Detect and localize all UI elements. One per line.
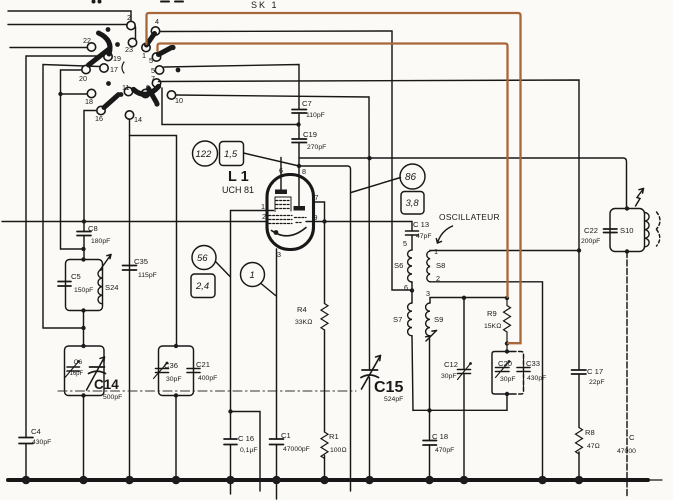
coil S6 <box>394 250 412 282</box>
wire h135 to C36 line <box>130 136 177 347</box>
contact 23 <box>125 38 137 54</box>
svg-text:C35: C35 <box>134 257 148 266</box>
trimmer C20 <box>496 359 516 383</box>
wire contact19 + vertical v25 to C4 <box>26 56 104 478</box>
svg-text:7: 7 <box>315 193 319 202</box>
svg-text:C22: C22 <box>584 226 598 235</box>
svg-text:18: 18 <box>85 97 93 106</box>
svg-text:7: 7 <box>151 74 155 83</box>
svg-text:1: 1 <box>250 270 255 281</box>
svg-text:3,8: 3,8 <box>406 198 420 209</box>
wire wiper to h124 <box>162 88 299 125</box>
trimmer C36 <box>154 361 182 383</box>
wire h166 to v351 <box>299 166 351 491</box>
tube pin9 wire <box>306 213 412 231</box>
wire contact18 <box>61 93 88 95</box>
node C15 top on h158 <box>367 156 371 160</box>
svg-text:2,4: 2,4 <box>195 281 209 292</box>
svg-text:S8: S8 <box>436 261 445 270</box>
svg-text:33KΩ: 33KΩ <box>295 319 312 326</box>
wire box1,5 to pin8 node <box>244 153 300 166</box>
svg-text:UCH 81: UCH 81 <box>222 185 254 195</box>
svg-text:C8: C8 <box>88 224 98 233</box>
oscillateur arrow <box>436 226 452 243</box>
svg-text:C: C <box>629 433 635 442</box>
svg-text:16pF: 16pF <box>70 371 84 377</box>
svg-text:R4: R4 <box>297 305 307 314</box>
contact 19 <box>104 52 121 63</box>
svg-text:200pF: 200pF <box>581 238 600 245</box>
wire contact22 left h47 <box>10 47 87 49</box>
trimmer C12 <box>441 360 472 380</box>
svg-text:122: 122 <box>196 149 213 160</box>
S24 adjust arrow <box>100 255 111 271</box>
svg-text:47000: 47000 <box>617 448 636 455</box>
wire C6 box to bus <box>83 396 85 479</box>
box C36/C21 <box>159 346 194 396</box>
text C 47000 <box>617 433 636 455</box>
svg-text:30pF: 30pF <box>441 373 457 380</box>
wire S8 top h250 <box>430 250 579 253</box>
small arc mark center of switch <box>122 62 124 73</box>
capacitor C21 <box>187 360 217 382</box>
coil S7 <box>393 303 412 336</box>
capacitor C8 <box>77 224 110 245</box>
svg-text:23: 23 <box>125 45 133 54</box>
node h328 <box>81 326 85 330</box>
contact 7 <box>151 74 161 87</box>
contact 18 <box>85 89 96 106</box>
svg-text:8: 8 <box>302 167 306 176</box>
svg-text:400pF: 400pF <box>198 375 217 382</box>
svg-text:15KΩ: 15KΩ <box>484 323 501 330</box>
wire contact4 h31 to v392 <box>160 31 412 290</box>
svg-text:3: 3 <box>426 289 430 298</box>
gang dashed link <box>58 390 356 392</box>
svg-text:5: 5 <box>403 239 407 248</box>
contact14 vertical through C35 to bus <box>129 120 131 479</box>
node R9 bottom / brown junction <box>505 341 509 345</box>
svg-text:0,1µF: 0,1µF <box>240 447 258 454</box>
node pin7/pin9 <box>322 219 326 223</box>
tube pin2 <box>262 212 266 221</box>
svg-text:R8: R8 <box>585 428 595 437</box>
contact 5 upper <box>149 53 161 65</box>
node C20 box top <box>505 349 509 353</box>
svg-text:S24: S24 <box>105 283 119 292</box>
svg-text:C20: C20 <box>498 359 512 368</box>
node C18 top <box>427 408 431 412</box>
node 6 <box>410 288 414 292</box>
svg-text:4: 4 <box>155 17 159 26</box>
indicator circle 122 <box>193 141 218 166</box>
svg-text:180pF: 180pF <box>91 238 110 245</box>
node C16 jog <box>228 409 232 413</box>
node h124/C7 line <box>296 122 300 126</box>
tube pin6 lead and anode bar <box>275 158 287 195</box>
svg-text:500pF: 500pF <box>103 394 122 401</box>
oscillateur label <box>439 212 500 222</box>
svg-text:C36: C36 <box>164 361 178 370</box>
wiper bar 16 <box>104 96 118 108</box>
capacitor C5 <box>58 272 93 294</box>
tube pin7 wire <box>314 193 325 304</box>
svg-text:C4: C4 <box>31 427 41 436</box>
svg-text:C15: C15 <box>374 379 403 396</box>
capacitor C22 <box>581 226 617 245</box>
node C36 bottom <box>174 393 178 397</box>
indicator circle 1 <box>241 263 265 287</box>
S10 adjust arrow <box>636 189 644 207</box>
resistor R1 <box>321 432 347 458</box>
wire top-left h11 <box>8 11 131 21</box>
capacitor C18 <box>423 410 454 478</box>
wire R4 to R1 <box>324 330 326 432</box>
svg-text:86: 86 <box>405 172 417 183</box>
svg-text:16: 16 <box>95 114 103 123</box>
capacitor C13 <box>403 220 432 250</box>
bracket 2-23 <box>135 27 137 39</box>
wiper bar 4-1 <box>147 34 155 46</box>
switch SK1 label <box>251 0 279 10</box>
svg-text:3: 3 <box>277 250 281 259</box>
indicator box 1,5 <box>220 142 244 166</box>
partial top marks <box>161 1 183 3</box>
svg-text:1,5: 1,5 <box>224 149 238 160</box>
wiper arc 22-19 <box>99 33 111 54</box>
capacitor C19 <box>292 130 326 206</box>
bus junction dots <box>22 476 584 485</box>
svg-text:L 1: L 1 <box>228 169 249 185</box>
node C20 box bottom <box>505 392 509 396</box>
vertical C15 line <box>368 97 371 478</box>
svg-text:OSCILLATEUR: OSCILLATEUR <box>439 212 500 222</box>
coil S8 <box>427 247 446 283</box>
coil S24 <box>98 270 119 304</box>
svg-text:30pF: 30pF <box>166 376 182 383</box>
tube pin3 wire <box>277 249 282 439</box>
wire contact7 h81 to v579 <box>159 80 580 370</box>
svg-text:C7: C7 <box>302 99 312 108</box>
svg-text:C19: C19 <box>303 130 317 139</box>
svg-text:S6: S6 <box>394 261 403 270</box>
svg-text:6: 6 <box>404 283 408 292</box>
box C6/C14 <box>65 346 105 396</box>
svg-text:6: 6 <box>279 166 283 175</box>
svg-text:10: 10 <box>175 96 183 105</box>
svg-text:17: 17 <box>110 65 118 74</box>
switch index dots <box>92 0 181 107</box>
node C8 line x h221 <box>82 219 86 223</box>
svg-text:1: 1 <box>142 51 146 60</box>
node C36 top <box>174 344 178 348</box>
wire S9 bottom to h410 <box>429 336 431 411</box>
node C6 box bottom <box>81 393 85 397</box>
svg-text:S9: S9 <box>434 315 443 324</box>
svg-text:56: 56 <box>197 253 208 264</box>
wire contact17 + vertical v43 <box>43 65 100 329</box>
svg-text:C 13: C 13 <box>413 220 429 229</box>
node v579 / S8 wire <box>577 248 581 252</box>
contact 2 <box>127 13 135 30</box>
box C20/C33 <box>492 352 524 395</box>
wire S10 bottom below bus <box>626 252 628 498</box>
contact 11 <box>122 83 133 96</box>
svg-text:150pF: 150pF <box>74 287 93 294</box>
resistor R8 <box>576 428 600 479</box>
wire top-left h24 <box>8 24 127 26</box>
svg-text:S7: S7 <box>393 315 402 324</box>
wire C20 box bottom to h410 <box>413 394 507 410</box>
svg-text:14: 14 <box>134 115 142 124</box>
svg-text:100Ω: 100Ω <box>330 447 347 454</box>
svg-text:19: 19 <box>113 54 121 63</box>
contact 1 <box>142 43 150 60</box>
capacitor C4 <box>19 427 51 446</box>
leader 56 to v230 <box>216 262 231 277</box>
indicator box 2,4 <box>191 274 215 298</box>
coil S10 <box>620 213 649 247</box>
contact 14 <box>125 111 142 124</box>
indicator circle 86 <box>400 164 425 189</box>
svg-text:470pF: 470pF <box>435 447 454 454</box>
svg-text:R9: R9 <box>487 309 497 318</box>
node h249 <box>81 247 85 251</box>
brown wire B contact5 to R9 top <box>158 44 508 298</box>
contact 17 <box>100 64 118 74</box>
wire contact5 h65 to C7 line <box>164 65 299 110</box>
svg-text:524pF: 524pF <box>384 396 403 403</box>
wiper arc 11-7 <box>134 87 159 95</box>
svg-text:47pF: 47pF <box>416 233 432 240</box>
wire contact16 + vertical v84 <box>84 111 97 260</box>
svg-text:C14: C14 <box>94 377 119 392</box>
wire pin2 long horizontal h221 <box>2 221 267 223</box>
capacitor C1 <box>270 431 310 499</box>
indicator circle 56 <box>192 246 216 270</box>
coil S9 <box>426 289 444 336</box>
indicator box 3,8 <box>401 192 424 215</box>
wire jog to v260 <box>231 412 261 492</box>
svg-text:C 18: C 18 <box>432 432 448 441</box>
node v60/18 <box>58 92 62 96</box>
svg-text:5: 5 <box>149 56 153 65</box>
svg-text:30pF: 30pF <box>500 376 516 383</box>
node pin8/C19 <box>297 164 301 168</box>
wire C36 box to bus <box>175 396 177 479</box>
wire C5 to C6 box <box>83 311 85 347</box>
svg-text:C 17: C 17 <box>587 367 603 376</box>
wire h158 C19 node to S10 <box>299 158 627 209</box>
node S9/C12 <box>462 296 466 300</box>
capacitor C16 <box>224 434 258 494</box>
node C5 bottom <box>81 308 85 312</box>
svg-text:C21: C21 <box>196 360 210 369</box>
tube UCH81 label <box>222 185 254 195</box>
wire S8 bottom h281 to v542 <box>430 282 543 478</box>
svg-text:110pF: 110pF <box>306 112 325 119</box>
coupling winding dashed <box>657 212 661 246</box>
resonant box C5/S24 <box>66 260 103 311</box>
svg-text:R1: R1 <box>329 432 339 441</box>
svg-text:C6: C6 <box>74 359 83 366</box>
capacitor C17 <box>572 367 605 428</box>
resistor R4 <box>295 304 328 330</box>
svg-text:S10: S10 <box>620 226 634 235</box>
svg-text:22: 22 <box>83 36 91 45</box>
brown wire A contact1 to R9 bottom <box>147 13 521 343</box>
node S10 top <box>625 206 629 210</box>
svg-text:430pF: 430pF <box>32 439 51 446</box>
svg-text:C5: C5 <box>71 272 81 281</box>
tube L1 label <box>228 169 249 185</box>
node C5 top <box>81 257 85 261</box>
box C22/S10 <box>610 209 645 252</box>
wiper bar cross <box>149 89 157 103</box>
wire R1 to bus <box>324 456 326 479</box>
tube UCH81 envelope <box>267 175 314 250</box>
vertical C12 line <box>463 298 465 478</box>
capacitor C33 <box>517 356 546 390</box>
svg-text:47Ω: 47Ω <box>587 443 600 450</box>
pin1 vertical v230 <box>231 211 268 439</box>
contact 9 <box>141 83 150 98</box>
wiper bar 19-20 <box>89 50 109 66</box>
tube grid structure <box>269 197 306 224</box>
contact 4 <box>151 17 159 35</box>
contact 10 <box>167 91 183 105</box>
svg-text:2: 2 <box>262 212 266 221</box>
svg-text:11: 11 <box>122 83 129 92</box>
wire contact10 h95 to C15 line <box>176 95 369 97</box>
svg-text:22pF: 22pF <box>589 379 605 386</box>
contact 22 <box>83 36 96 51</box>
svg-text:1: 1 <box>261 202 265 211</box>
svg-text:SK 1: SK 1 <box>251 0 279 10</box>
tube pin1 <box>261 202 274 211</box>
capacitor C7 <box>292 99 325 139</box>
svg-text:115pF: 115pF <box>138 272 157 279</box>
wire S7 bottom to h410 <box>412 336 413 411</box>
svg-text:1: 1 <box>434 247 438 256</box>
wire contact20 + vertical v60 to C5 node <box>61 70 84 249</box>
svg-text:47000pF: 47000pF <box>283 446 310 453</box>
wire S6 bottom to node6 <box>404 282 412 303</box>
contact 16 <box>95 106 105 123</box>
svg-text:9: 9 <box>314 213 318 222</box>
svg-text:C12: C12 <box>444 360 458 369</box>
svg-text:430pF: 430pF <box>527 375 546 382</box>
S9 adjust arrow <box>426 331 437 342</box>
node C6 box top <box>81 344 85 348</box>
node R9 top <box>505 296 509 300</box>
node S10 bottom <box>625 249 629 253</box>
variable capacitor C14 <box>87 357 123 401</box>
contact 5 lower <box>151 66 164 75</box>
wire slant to circle 86 <box>351 178 401 193</box>
resistor R9 <box>484 298 511 352</box>
variable capacitor C15 <box>361 356 403 404</box>
svg-text:20: 20 <box>79 74 87 83</box>
capacitor C35 <box>123 257 157 279</box>
wire S9 top h297 to R9 <box>430 298 507 304</box>
tube pin8 bar <box>294 167 307 211</box>
svg-text:C 16: C 16 <box>238 434 254 443</box>
leader 1 to v276 <box>261 284 276 296</box>
trimmer C6 <box>65 359 84 378</box>
contact 20 <box>79 65 90 83</box>
tube cathode <box>272 228 307 236</box>
svg-text:C33: C33 <box>526 359 540 368</box>
ground bus <box>8 478 662 482</box>
wiper bar 5 <box>159 48 172 55</box>
svg-text:270pF: 270pF <box>307 144 326 151</box>
svg-text:2: 2 <box>127 13 131 22</box>
svg-text:C1: C1 <box>281 431 291 440</box>
